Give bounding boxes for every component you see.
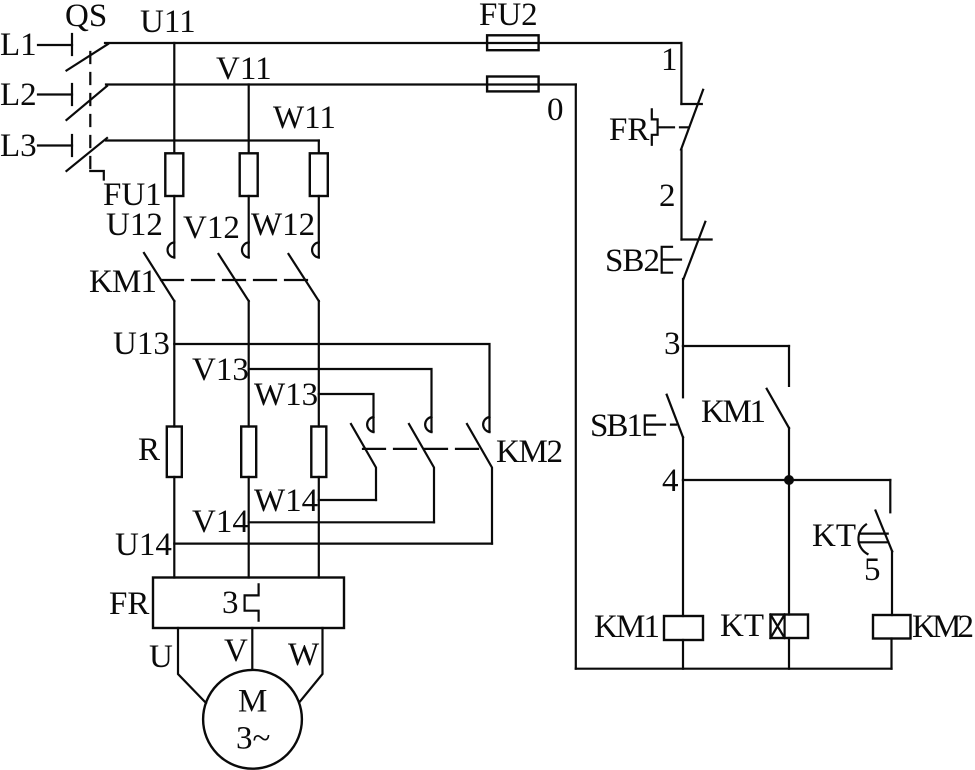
wire V13 line [249, 369, 432, 432]
resistor R W-phase [311, 427, 326, 478]
svg-text:L2: L2 [0, 77, 37, 113]
fuse FU2 lower [487, 77, 538, 92]
svg-text:W: W [288, 637, 320, 673]
contactor KM2 contact 1 blade [351, 424, 376, 500]
svg-text:W11: W11 [273, 100, 336, 136]
wire U13 line [174, 344, 489, 432]
svg-text:FU2: FU2 [479, 0, 538, 33]
contactor KM2 contact 2 hook [425, 417, 431, 432]
button SB2 actuator dashed [674, 259, 683, 261]
fuse FU1 U-phase [165, 153, 183, 196]
contactor KM1 main blade 1 [144, 253, 174, 301]
relay FR heater symbol [245, 584, 259, 620]
switch QS handle step [90, 171, 104, 180]
wire FR to SB2 [680, 150, 682, 240]
contactor KM2 linkage dashed [363, 448, 483, 450]
wire KM1 coil to rail [682, 640, 684, 669]
svg-text:V14: V14 [192, 504, 249, 540]
button SB1 actuator dashed [657, 424, 676, 426]
relay FR heater box [153, 578, 344, 629]
coil KM2 [873, 615, 911, 639]
wire KT coil to rail [788, 638, 790, 669]
wire W11 line [106, 139, 319, 141]
button SB2 blade [684, 222, 706, 279]
switch QS pole 3 blade [67, 138, 108, 171]
svg-text:2: 2 [659, 178, 676, 214]
contactor KM1 aux upper wire [788, 346, 790, 386]
svg-text:M: M [238, 684, 267, 720]
timer KT delay symbol [858, 525, 888, 555]
contactor KM2 contact 3 blade [467, 424, 492, 544]
button SB1 cap symbol [645, 416, 655, 435]
svg-text:1: 1 [661, 42, 678, 78]
wire node 3 branch [683, 345, 789, 347]
button SB2 cap symbol [662, 247, 672, 273]
relay FR NC contact blade [681, 90, 703, 150]
svg-text:U13: U13 [113, 326, 170, 362]
wire to KT coil [788, 480, 790, 615]
button SB1 upper wire [682, 346, 684, 397]
wire W13 line [319, 394, 374, 432]
wire KM1 aux to node 4 [788, 428, 790, 480]
svg-text:SB2: SB2 [605, 243, 660, 279]
relay FR actuator dashed [666, 126, 689, 128]
switch QS linkage dashed [89, 52, 91, 171]
svg-text:KT: KT [812, 518, 856, 554]
wire W column resistor to FR [318, 477, 320, 578]
resistor R U-phase [167, 427, 182, 478]
svg-text:KM2: KM2 [496, 434, 563, 470]
timer KT contact upper wire [889, 480, 891, 512]
fuse FU1 V-phase [240, 153, 258, 196]
wire motor lead U [178, 628, 206, 703]
wire SB1 to node 4 [682, 437, 684, 480]
svg-text:L3: L3 [0, 128, 37, 164]
svg-text:QS: QS [65, 0, 107, 34]
switch QS pole 2 blade [67, 86, 108, 120]
svg-text:U12: U12 [106, 207, 163, 243]
fuse FU2 upper [487, 35, 538, 50]
svg-text:3: 3 [222, 585, 239, 621]
svg-text:V: V [224, 633, 248, 669]
svg-text:V12: V12 [183, 210, 240, 246]
wire W column to KM1 contact [318, 196, 320, 258]
wire L2 incoming [38, 93, 72, 95]
wire U11 top line [105, 42, 681, 44]
timer KT contact blade [876, 511, 893, 552]
wire motor lead V [251, 628, 253, 669]
svg-text:KT: KT [720, 608, 764, 644]
contactor KM1 aux blade [767, 389, 789, 428]
wire L3 incoming [38, 144, 72, 146]
svg-text:KM2: KM2 [912, 609, 974, 645]
wire W column KM1 to W13 [318, 301, 320, 427]
relay FR NC contact tick [681, 103, 701, 105]
wire U column to KM1 contact [173, 196, 175, 258]
wire bottom rail [576, 668, 892, 670]
svg-text:KM1: KM1 [594, 609, 660, 645]
coil KT X mark [771, 615, 785, 639]
junction dot node 4 [784, 475, 794, 485]
wire V11 line [106, 83, 576, 85]
svg-text:KM1: KM1 [701, 394, 766, 430]
contactor KM1 linkage dashed [161, 279, 307, 281]
fuse FU1 W-phase [310, 153, 328, 196]
svg-text:V11: V11 [216, 51, 272, 87]
contactor KM1 main contact 3 hook [312, 242, 319, 257]
button SB1 blade [667, 395, 683, 438]
svg-text:4: 4 [662, 463, 679, 499]
svg-text:SB1: SB1 [590, 408, 643, 444]
wire motor lead W [300, 628, 323, 702]
wire U column upper [173, 43, 175, 153]
contactor KM1 main blade 3 [289, 254, 319, 301]
svg-text:U11: U11 [140, 4, 196, 40]
svg-text:W12: W12 [251, 207, 315, 243]
wire SB2 to node 3 [682, 279, 684, 346]
switch QS pole 1 blade [67, 44, 109, 71]
contactor KM1 main blade 2 [219, 254, 249, 301]
svg-text:3~: 3~ [236, 721, 270, 757]
wire node 4 line [683, 479, 890, 481]
wire U column resistor to FR [173, 477, 175, 578]
coil KM1 [664, 616, 703, 640]
switch QS pole 2 fixed contact [71, 84, 73, 105]
switch QS pole 1 fixed contact [71, 34, 73, 55]
contactor KM1 main contact 2 hook [242, 242, 249, 257]
svg-text:KM1: KM1 [89, 264, 157, 300]
wire control line 0 down (left rail) [575, 85, 577, 669]
svg-text:FR: FR [609, 112, 649, 148]
button SB2 NC tick [682, 238, 712, 240]
svg-text:U: U [149, 639, 173, 675]
wire V column resistor to FR [248, 477, 250, 578]
contactor KM2 contact 1 hook [367, 417, 373, 432]
svg-text:FR: FR [109, 586, 149, 622]
wire KT contact to KM2 coil [891, 551, 893, 615]
wire U14 line [174, 542, 492, 544]
wire V column to KM1 contact [248, 196, 250, 258]
contactor KM2 contact 3 hook [483, 417, 489, 432]
svg-text:W14: W14 [254, 483, 318, 519]
switch QS pole 3 fixed contact [71, 135, 73, 156]
wire V column KM1 to V13 [248, 301, 250, 427]
svg-text:3: 3 [664, 326, 681, 362]
svg-text:U14: U14 [115, 527, 172, 563]
wire KM2 coil to rail [890, 639, 892, 669]
wire to KM1 coil [682, 480, 684, 616]
wire W14 line [319, 499, 376, 501]
svg-text:L1: L1 [0, 27, 37, 63]
coil KT divider [783, 615, 785, 639]
coil KT [771, 615, 809, 639]
svg-text:0: 0 [547, 92, 564, 128]
contactor KM1 main contact 1 hook [168, 242, 175, 257]
wire L1 incoming [38, 44, 72, 46]
svg-text:V13: V13 [192, 352, 249, 388]
wire W column upper [318, 141, 320, 154]
resistor R V-phase [241, 427, 256, 478]
wire V14 line [249, 521, 434, 523]
svg-text:R: R [138, 432, 160, 468]
svg-text:5: 5 [864, 552, 881, 588]
wire control line 1 down [680, 43, 682, 104]
relay FR bimetal symbol [652, 109, 664, 145]
wire U column KM1 to U13 [173, 301, 175, 427]
contactor KM2 contact 2 blade [409, 424, 434, 522]
motor M circle [203, 670, 302, 769]
wire V column upper [248, 85, 250, 154]
svg-text:W13: W13 [254, 377, 318, 413]
